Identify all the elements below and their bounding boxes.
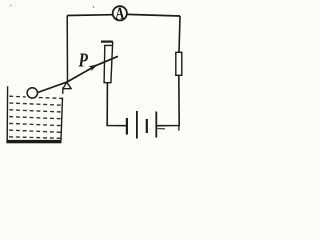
wire: right vertical upper (top rail to resistor) [179,16,180,53]
wire: battery left lead and left vertical up to rheostat [107,83,127,126]
water dashed line row 5 [9,123,61,125]
wire: top rail left segment [67,14,113,17]
pen overdraw stub near battery right lead [157,128,165,130]
wire overshoot tail at bottom-right corner [178,126,180,131]
beaker bottom (thick) [6,140,61,143]
ink speck top left [10,5,11,6]
wire: right vertical lower (resistor to bottom corner) [157,75,179,125]
wire: left vertical from top rail down to pivot [66,16,68,82]
battery cell plate short (right cell, negative) [146,119,148,133]
lever rod (from ball through pivot slider to rheostat) [36,56,118,93]
ammeter A [113,6,127,20]
pivot fulcrum triangle [63,82,71,89]
battery cell plate short (left, negative) [126,118,128,135]
label P [78,53,88,66]
ball float on lever [27,88,37,98]
water dashed line row 7 [9,137,61,139]
ammeter letter A [115,8,124,19]
wire: top rail right segment [127,14,180,16]
water dashed line row 4 [9,117,61,119]
water dashed line row 1 (surface, right of ball) [39,97,62,100]
water dashed line row 3 [9,110,61,112]
beaker right wall lower [61,98,63,141]
beaker right wall upper [62,87,64,94]
resistor R (right side) [176,52,182,75]
water dashed line row 2 [9,103,62,105]
ink speck top area [93,6,95,8]
water dashed line row 6 [9,130,61,132]
rheostat body rectangle [104,42,113,83]
water dashed line row 1 (surface, left of ball) [9,95,25,98]
battery cell plate long (left cell, positive) [136,111,138,139]
beaker left wall [6,86,8,140]
arrowhead P pointer on lever [88,64,98,71]
rheostat slide bar (top horizontal bar) [101,40,113,42]
battery cell plate long (right, positive) [155,112,157,138]
